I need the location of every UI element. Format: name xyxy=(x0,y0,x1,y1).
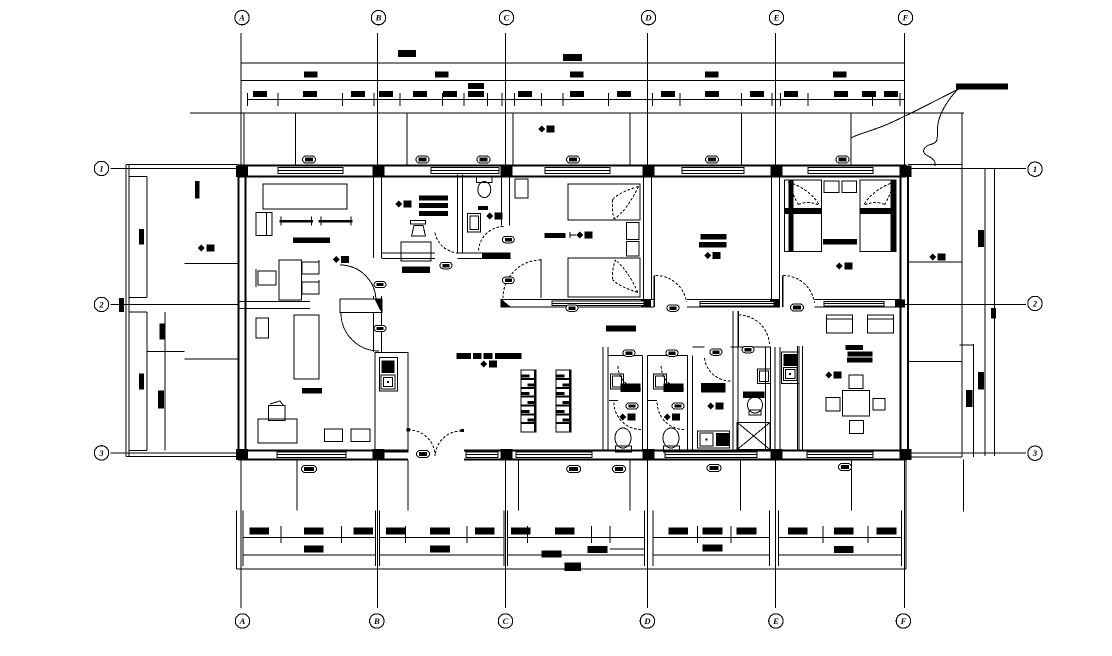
svg-text:A: A xyxy=(239,616,246,626)
svg-text:D: D xyxy=(643,616,650,626)
svg-text:1: 1 xyxy=(99,164,103,174)
svg-text:2: 2 xyxy=(98,300,104,310)
svg-text:F: F xyxy=(900,616,907,626)
svg-text:B: B xyxy=(375,13,382,23)
svg-text:3: 3 xyxy=(1032,448,1038,458)
svg-text:E: E xyxy=(772,616,779,626)
svg-text:C: C xyxy=(503,616,509,626)
svg-text:3: 3 xyxy=(98,448,104,458)
svg-text:F: F xyxy=(902,13,909,23)
svg-text:D: D xyxy=(644,13,651,23)
svg-text:1: 1 xyxy=(1033,164,1037,174)
svg-text:B: B xyxy=(373,616,380,626)
svg-text:2: 2 xyxy=(1032,299,1038,309)
svg-text:A: A xyxy=(238,13,245,23)
svg-text:C: C xyxy=(504,13,510,23)
svg-text:E: E xyxy=(773,13,780,23)
